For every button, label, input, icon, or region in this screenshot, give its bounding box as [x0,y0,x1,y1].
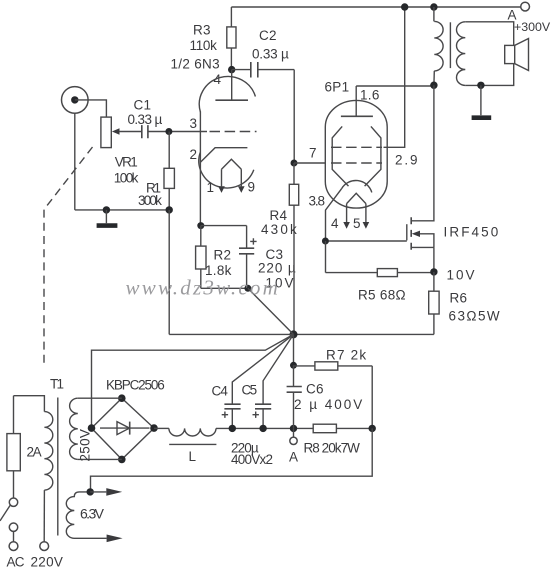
transformer T1 primary [44,412,52,491]
svg-text:T1: T1 [50,377,63,392]
capacitor C4 [224,404,240,409]
plus mark C3 [250,238,256,244]
svg-text:C2: C2 [259,28,277,43]
heater arrow pin 5 [363,222,370,229]
tube U1 envelope [199,76,255,112]
svg-text:R5 68Ω: R5 68Ω [358,288,406,303]
capacitor C5 [255,404,271,409]
transistor Q1 IRF450 gate [406,224,408,240]
svg-text:63Ω5W: 63Ω5W [449,309,502,324]
svg-text:R6: R6 [450,291,468,306]
svg-text:2: 2 [190,147,198,162]
node plate 6N3 junction [228,66,235,73]
svg-text:3: 3 [190,116,198,131]
svg-text:R3: R3 [193,23,211,38]
node pin7 junction [291,160,298,167]
svg-text:100k: 100k [114,171,139,186]
svg-text:C6: C6 [306,382,324,397]
transformer T1 secondary 250V [70,398,78,459]
wire star to C5 [263,334,293,404]
ground (input) [105,210,107,223]
capacitor C1 [142,125,148,138]
input jack J1 [62,87,89,114]
resistor R6 [433,272,435,291]
svg-text:1: 1 [207,180,215,195]
heater supply arrow bottom [107,535,123,543]
svg-text:AC: AC [7,555,25,570]
svg-text:2 µ 400V: 2 µ 400V [294,397,364,412]
wire +300V top rail [231,6,520,8]
wire jack to VR1 [75,100,107,117]
tube U1 plate [215,99,248,101]
svg-text:R7 2k: R7 2k [326,348,367,363]
wire fuse to primary [14,396,45,412]
svg-text:VR1: VR1 [115,155,137,170]
screen grid (dashed) [331,146,382,148]
node R2/C3 bottom [244,285,251,292]
wire grid 6P1 pin 7 [294,162,325,164]
wire star to bridge minus [92,334,294,428]
tube V2 envelope [325,100,387,208]
terminal A (bottom) [293,428,295,437]
heater supply arrow top [90,491,106,493]
svg-text:400Vx2: 400Vx2 [231,452,273,467]
svg-text:220V: 220V [31,555,64,570]
wire star to R1 column [169,210,293,335]
node C5 bus [259,425,266,432]
tube V2 plate [341,115,373,117]
svg-text:L: L [189,449,197,464]
tube V2 heater [347,193,366,222]
svg-text:4: 4 [331,216,339,231]
node C6/A bus [290,425,297,432]
transformer T1 secondary 6.3V [66,492,106,538]
resistor R5 [326,241,378,273]
node star ground [290,330,298,338]
svg-text:9: 9 [248,180,256,195]
bridge diode symbol [100,427,150,429]
wire jack sleeve [74,113,76,210]
wire screen to +300V [384,7,405,147]
tube U1 heater [222,159,242,186]
svg-text:10V: 10V [447,268,477,283]
svg-text:0.33 µ: 0.33 µ [252,47,289,62]
node C1/R1/grid [165,128,172,135]
wire star down to R7 [293,334,295,365]
svg-text:1/2 6N3: 1/2 6N3 [171,57,220,72]
capacitor C3 [246,226,248,248]
resistor R8 [313,424,336,433]
ground (speaker) [480,85,482,115]
wire input ground rail [75,209,169,211]
transistor Q1 body arrow [420,234,434,248]
node 10V [430,268,437,275]
tube U1 grid (dashed) [210,131,257,133]
node R1 bottom [166,206,173,213]
resistor R1 [168,132,170,169]
svg-text:C4: C4 [212,384,229,399]
resistor R4 [293,163,295,184]
control grid (dashed) [331,162,382,164]
terminal AC [9,542,18,551]
heater arrow pin 4 [343,222,350,229]
svg-text:C1: C1 [134,98,152,113]
inductor L [154,427,169,429]
potentiometer VR1 [101,117,111,148]
svg-text:300k: 300k [138,193,162,208]
svg-text:A: A [289,450,298,465]
terminal 220V [40,542,49,551]
node VR1 ground [103,206,110,213]
node plate/OPT junction [430,82,437,89]
node C4 bus [229,425,236,432]
fuse F1 2A [13,396,15,434]
svg-text:110k: 110k [190,38,218,53]
tube U1 cathode [200,148,247,163]
wire star to C3 bottom [248,288,294,334]
capacitor C2 [232,69,251,71]
svg-text:220 µ: 220 µ [258,261,297,276]
dashed link VR1 to mains switch [44,147,93,366]
resistor R7 [290,362,297,369]
svg-text:IRF450: IRF450 [444,225,501,240]
output transformer secondary [457,22,466,86]
rectifier bridge KBPC2506 [92,398,155,459]
svg-text:2.9: 2.9 [395,153,419,168]
wire main DC bus [216,427,313,429]
svg-text:+300V: +300V [514,20,551,34]
svg-text:KBPC2506: KBPC2506 [106,378,164,393]
heater arrow pin 9 [238,186,245,193]
resistor R2 [197,222,204,229]
wire cathode to gate [326,240,407,242]
node OPT rail [430,3,437,10]
svg-text:5: 5 [353,216,361,231]
switch S1 [9,498,17,506]
svg-text:C5: C5 [242,383,257,398]
svg-text:3.8: 3.8 [309,194,325,209]
wire bottom return rail [91,428,373,492]
terminal A +300V [521,2,530,11]
transistor Q1 drain [411,85,434,221]
beam plate left [332,126,348,186]
svg-text:R2: R2 [214,248,232,263]
output transformer core [449,22,451,68]
svg-text:6P1: 6P1 [325,80,350,95]
cathode dome [342,180,372,192]
tube U1 grid wire [169,131,207,133]
node speaker ground tap [477,82,484,89]
svg-text:R8 20k7W: R8 20k7W [304,441,361,456]
wire plate to OPT [356,85,434,87]
output transformer primary [433,7,435,21]
svg-text:www.dz3w.com: www.dz3w.com [126,276,281,300]
transistor Q1 source [411,247,434,272]
svg-text:6.3V: 6.3V [80,506,105,522]
transformer T1 core [57,398,59,536]
beam plate right [365,126,381,186]
wire R2/C3 bottom [201,287,248,289]
node cathode/R5/gate [322,238,329,245]
svg-text:0.33 µ: 0.33 µ [128,112,163,127]
capacitor C6 [293,365,295,386]
heater arrow pin 1 [218,186,225,193]
svg-text:430k: 430k [261,222,299,237]
node 6.3V top [87,488,94,495]
speaker SP [505,45,515,63]
svg-text:7: 7 [309,146,317,161]
transistor Q1 channel bars [410,217,412,250]
svg-text:1.6: 1.6 [360,88,380,103]
node screen rail [401,3,408,10]
resistor R3 [230,7,232,27]
wire star to C4 [232,334,293,404]
wire C2 to grid 6P1 [293,70,295,163]
svg-text:2A: 2A [27,445,42,460]
svg-text:250V: 250V [78,429,93,462]
cathode lead 3.8 [326,189,342,241]
